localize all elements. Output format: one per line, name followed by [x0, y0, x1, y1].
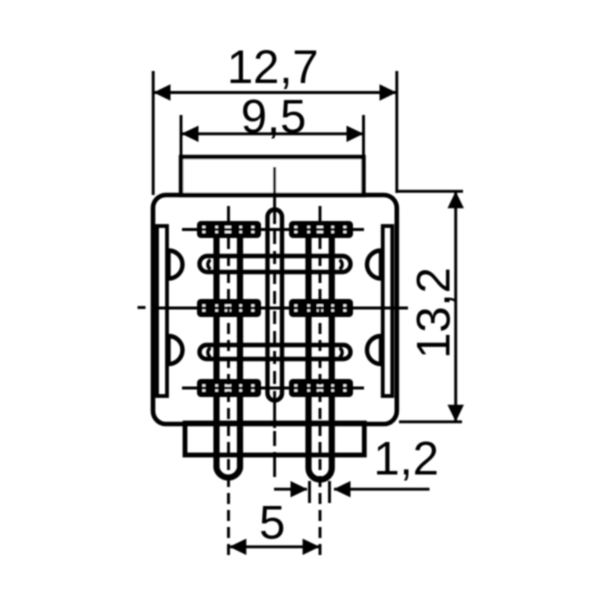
left pin center line top stub [227, 206, 230, 223]
dim 1,2 line right segment [334, 488, 430, 491]
right pin [309, 223, 332, 480]
contact bar row3 right [289, 299, 353, 317]
svg-text:1,2: 1,2 [374, 432, 439, 485]
right side slot [383, 226, 393, 396]
contact bar row1 left [197, 221, 261, 238]
dim 9,5 extension line right [362, 115, 365, 157]
left bump upper [169, 251, 183, 279]
top cap [181, 157, 364, 195]
arrow 13,2 bottom [448, 405, 464, 422]
dim 13,2 line [454, 192, 457, 421]
vertical center line below body dash 2 [273, 452, 276, 477]
stadium row 4 inner end arc left [208, 348, 211, 357]
contact bar row3 left [197, 299, 261, 317]
center slot [268, 210, 283, 401]
arrow 9,5 left [182, 126, 199, 142]
vertical center line lower [273, 399, 276, 428]
arrow 5 right [303, 539, 320, 555]
vertical center line upper [273, 167, 276, 212]
arrow 5 left [229, 539, 246, 555]
row5 center line [182, 387, 364, 390]
stadium row 2 inner end arc left [208, 260, 211, 269]
stadium contact row 2 [200, 256, 351, 272]
right bump lower [367, 336, 381, 364]
row1 center line [182, 228, 364, 231]
bottom flange [185, 423, 364, 455]
svg-text:5: 5 [259, 496, 285, 549]
svg-text:12,7: 12,7 [227, 40, 318, 93]
row3 center line left dash [138, 306, 146, 309]
stadium row 2 inner end arc right [340, 260, 343, 269]
svg-text:13,2: 13,2 [407, 267, 460, 358]
left pin [217, 223, 241, 478]
arrow 12,7 right [380, 84, 397, 100]
right bump upper [367, 251, 381, 279]
contact bar row5 left [197, 379, 261, 397]
row3 center line [154, 307, 408, 310]
dim 9,5 line [182, 132, 363, 135]
dim 13,2 extension line bottom [399, 420, 462, 423]
dim 12,7 line [154, 91, 396, 94]
body outline [153, 195, 397, 424]
contact bar row5 right [289, 379, 353, 397]
dim 13,2 extension line top [397, 190, 463, 193]
dim 5 line [230, 545, 319, 548]
stadium contact row 4 [200, 345, 351, 359]
dim 9,5 extension line left [180, 115, 183, 157]
contact bar row1 right [289, 221, 353, 238]
left side slot [157, 226, 167, 396]
dim 1,2 extension line right [328, 481, 331, 503]
arrow 1,2 right [334, 481, 351, 497]
dim 1,2 line left segment [274, 488, 307, 491]
arrow 13,2 top [448, 191, 464, 208]
arrow 9,5 right [347, 126, 364, 142]
dim 12,7 extension line right [395, 71, 398, 193]
dim 1,2 extension line left [308, 481, 311, 503]
arrow 1,2 left [291, 481, 308, 497]
svg-text:9,5: 9,5 [241, 90, 306, 143]
arrow 12,7 left [154, 84, 171, 100]
right pin center line dashed [319, 238, 322, 556]
dim 12,7 extension line left [152, 71, 155, 195]
left pin center line dashed [227, 238, 230, 556]
right pin center line top stub [319, 206, 322, 223]
stadium row 4 inner end arc right [340, 348, 343, 357]
vertical center line in slot (dash-dot) [273, 211, 276, 399]
left bump lower [169, 336, 183, 364]
vertical center line below body dash 1 [273, 431, 276, 446]
